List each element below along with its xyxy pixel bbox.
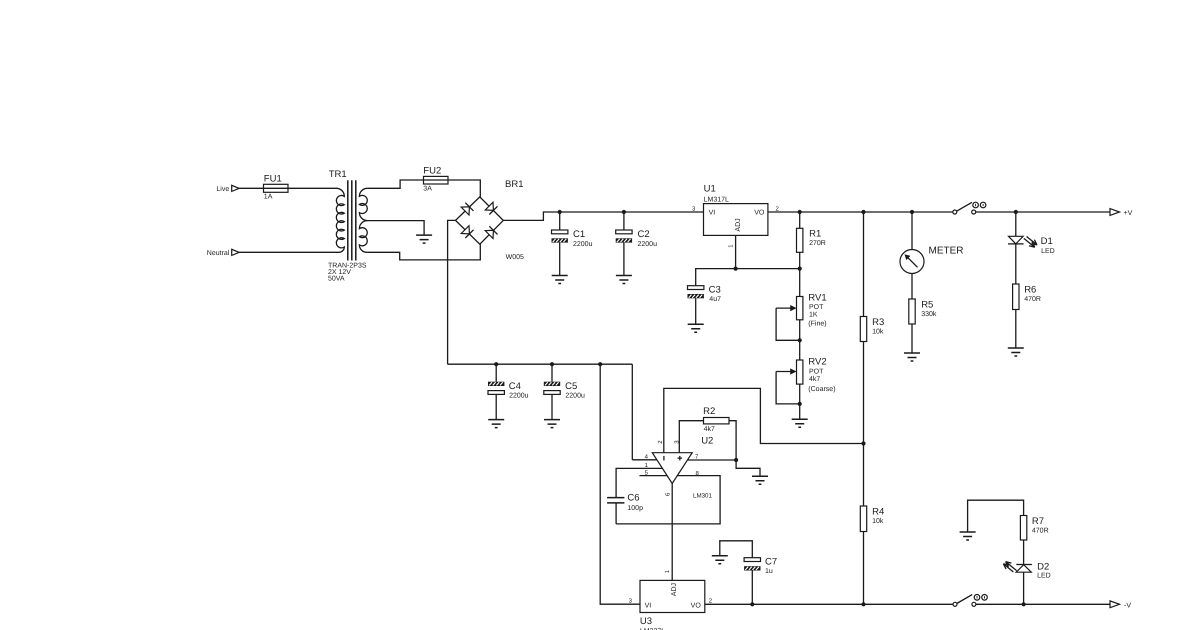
svg-text:ADJ: ADJ: [671, 583, 678, 596]
svg-text:U1: U1: [704, 183, 716, 194]
svg-text:C4: C4: [509, 381, 521, 392]
svg-text:3A: 3A: [423, 186, 432, 193]
svg-text:C5: C5: [565, 381, 577, 392]
capacitor C7 1u: [712, 541, 777, 605]
switch SW2 (output on/off, -V): [953, 595, 987, 607]
svg-text:(Coarse): (Coarse): [808, 385, 835, 393]
wire: [239, 251, 339, 253]
regulator U1 LM317L: [692, 183, 779, 268]
wire U2 output to U3 ADJ: [671, 484, 673, 581]
wire rail down to U3 VI: [600, 364, 640, 604]
svg-text:R5: R5: [921, 300, 933, 311]
wire U3 VO along -V rail: [705, 603, 953, 605]
svg-text:VO: VO: [754, 209, 765, 216]
svg-text:R3: R3: [872, 317, 884, 328]
junction: [1014, 210, 1018, 214]
svg-text:R7: R7: [1032, 516, 1044, 527]
transformer TR1 secondary winding (lower): [359, 221, 367, 253]
capacitor C3 4u7: [688, 284, 722, 332]
svg-text:270R: 270R: [809, 240, 826, 247]
transformer TR1 secondary winding (upper): [359, 188, 367, 220]
svg-text:FU1: FU1: [264, 173, 282, 184]
svg-text:TR1: TR1: [329, 169, 347, 180]
svg-text:LED: LED: [1037, 573, 1051, 580]
svg-text:2200u: 2200u: [509, 393, 529, 400]
svg-text:D1: D1: [1041, 236, 1053, 247]
svg-text:470R: 470R: [1024, 296, 1041, 303]
svg-text:R6: R6: [1024, 285, 1036, 296]
svg-text:4k7: 4k7: [809, 375, 820, 383]
svg-text:VI: VI: [645, 602, 652, 609]
svg-text:470R: 470R: [1032, 527, 1049, 534]
resistor R6 470R: [1008, 244, 1041, 356]
svg-text:BR1: BR1: [505, 179, 523, 190]
junction: [558, 210, 562, 214]
wire: [239, 187, 263, 189]
junction: [910, 210, 914, 214]
svg-text:POT: POT: [809, 368, 824, 375]
svg-text:10k: 10k: [872, 327, 884, 335]
resistor R2 4k7 (feedback): [679, 406, 736, 460]
junction: [798, 210, 802, 214]
node Neutral (input terminal): [207, 249, 239, 257]
wire U1 ADJ node: [696, 269, 800, 286]
svg-text:D2: D2: [1037, 561, 1049, 572]
op-amp U2 LM301 compensation box: [616, 460, 720, 524]
svg-text:(Fine): (Fine): [808, 320, 826, 328]
svg-text:ADJ: ADJ: [735, 218, 742, 231]
svg-text:2200u: 2200u: [565, 393, 585, 400]
svg-text:4k7: 4k7: [704, 425, 715, 433]
svg-text:VI: VI: [709, 209, 716, 216]
LED D1: [1008, 212, 1055, 255]
resistor R1 270R: [797, 212, 826, 269]
capacitor C4 2200u: [488, 364, 529, 427]
svg-text:50VA: 50VA: [328, 276, 345, 283]
junction: [798, 402, 802, 406]
potentiometer RV2 POT 4k7 (Coarse): [776, 357, 835, 428]
junction: [861, 210, 865, 214]
wire U2 pin7/R2 to ground: [688, 460, 761, 476]
capacitor C1 2200u: [552, 212, 593, 284]
wire centre tap to ground: [367, 221, 424, 236]
bridge rectifier BR1 W005: [456, 179, 524, 261]
fuse FU2 3A: [423, 166, 448, 193]
junction: [798, 338, 802, 342]
svg-text:R2: R2: [703, 406, 715, 417]
svg-text:1u: 1u: [765, 568, 773, 575]
svg-text:LED: LED: [1041, 248, 1055, 255]
svg-text:Live: Live: [216, 185, 229, 193]
potentiometer RV1 POT 1K (Fine): [776, 269, 827, 360]
svg-text:R1: R1: [809, 229, 821, 240]
junction: [1022, 602, 1026, 606]
wire bridge negative down to -V rail: [448, 220, 456, 364]
node Live (input terminal): [216, 185, 239, 193]
svg-text:VO: VO: [691, 602, 702, 609]
svg-text:R4: R4: [872, 507, 884, 518]
junction: [734, 267, 738, 271]
resistor R4 10k: [860, 444, 884, 605]
capacitor C6 100p: [607, 493, 643, 513]
capacitor C5 2200u: [544, 364, 585, 427]
ground: [752, 476, 768, 484]
ground: [416, 235, 432, 243]
svg-text:LM317L: LM317L: [704, 196, 729, 203]
transformer TR1 TRAN-2P3S primary winding: [336, 188, 344, 252]
junction: [622, 210, 626, 214]
svg-text:+V: +V: [1124, 210, 1133, 217]
junction: [861, 602, 865, 606]
svg-text:-V: -V: [1124, 602, 1131, 609]
svg-text:C3: C3: [709, 284, 721, 295]
svg-text:2200u: 2200u: [573, 241, 593, 248]
svg-text:RV2: RV2: [808, 357, 826, 368]
wire FU2 to bridge top: [448, 180, 480, 197]
node +V output: [976, 209, 1133, 218]
wire U1 VO to switch: [768, 211, 953, 213]
resistor R5 330k: [904, 299, 937, 361]
wire: [288, 187, 337, 189]
junction: [861, 441, 865, 445]
svg-text:METER: METER: [929, 246, 964, 257]
svg-text:100p: 100p: [627, 505, 643, 512]
wire rail down to U2 pin 4: [631, 364, 633, 460]
wire secondary top to FU2: [367, 180, 423, 188]
svg-text:LM301: LM301: [693, 493, 712, 500]
junction: [550, 362, 554, 366]
transformer TR1 core: [348, 180, 356, 260]
svg-text:C1: C1: [573, 229, 585, 240]
meter (moving coil): [900, 212, 964, 299]
wire feedback to U2 inverting input: [664, 388, 864, 452]
junction: [734, 458, 738, 462]
svg-text:4u7: 4u7: [709, 296, 721, 303]
resistor R3 10k: [860, 212, 884, 444]
capacitor C2 2200u: [616, 212, 657, 284]
svg-text:C7: C7: [765, 556, 777, 567]
junction: [494, 362, 498, 366]
wire bridge positive to +V rail / U1 VI: [503, 212, 703, 220]
switch SW1 (output on/off, +V): [953, 202, 986, 214]
svg-text:330k: 330k: [921, 310, 937, 318]
regulator U3 LM337L: [629, 569, 713, 630]
op-amp U2 LM301 triangle: [645, 436, 714, 496]
svg-text:Neutral: Neutral: [207, 249, 230, 257]
svg-text:C2: C2: [638, 229, 650, 240]
svg-text:POT: POT: [809, 304, 824, 311]
svg-text:U2: U2: [701, 436, 713, 447]
wire -V unregulated rail: [448, 363, 633, 365]
wire secondary bottom to bridge: [367, 244, 480, 260]
svg-text:2200u: 2200u: [638, 241, 658, 248]
svg-text:W005: W005: [506, 254, 524, 261]
svg-text:10k: 10k: [872, 517, 884, 525]
junction: [798, 267, 802, 271]
LED D2: [1003, 561, 1050, 604]
svg-text:FU2: FU2: [423, 166, 441, 177]
resistor R7 470R: [960, 500, 1049, 564]
node -V output: [976, 601, 1131, 610]
svg-text:C6: C6: [627, 493, 639, 504]
svg-text:1A: 1A: [264, 194, 273, 201]
fuse FU1 1A: [264, 173, 289, 200]
svg-text:RV1: RV1: [808, 292, 826, 303]
svg-text:U3: U3: [640, 616, 652, 627]
junction: [750, 602, 754, 606]
junction: [598, 362, 602, 366]
transformer TR1 labels: [328, 169, 367, 283]
svg-text:1K: 1K: [809, 311, 818, 318]
